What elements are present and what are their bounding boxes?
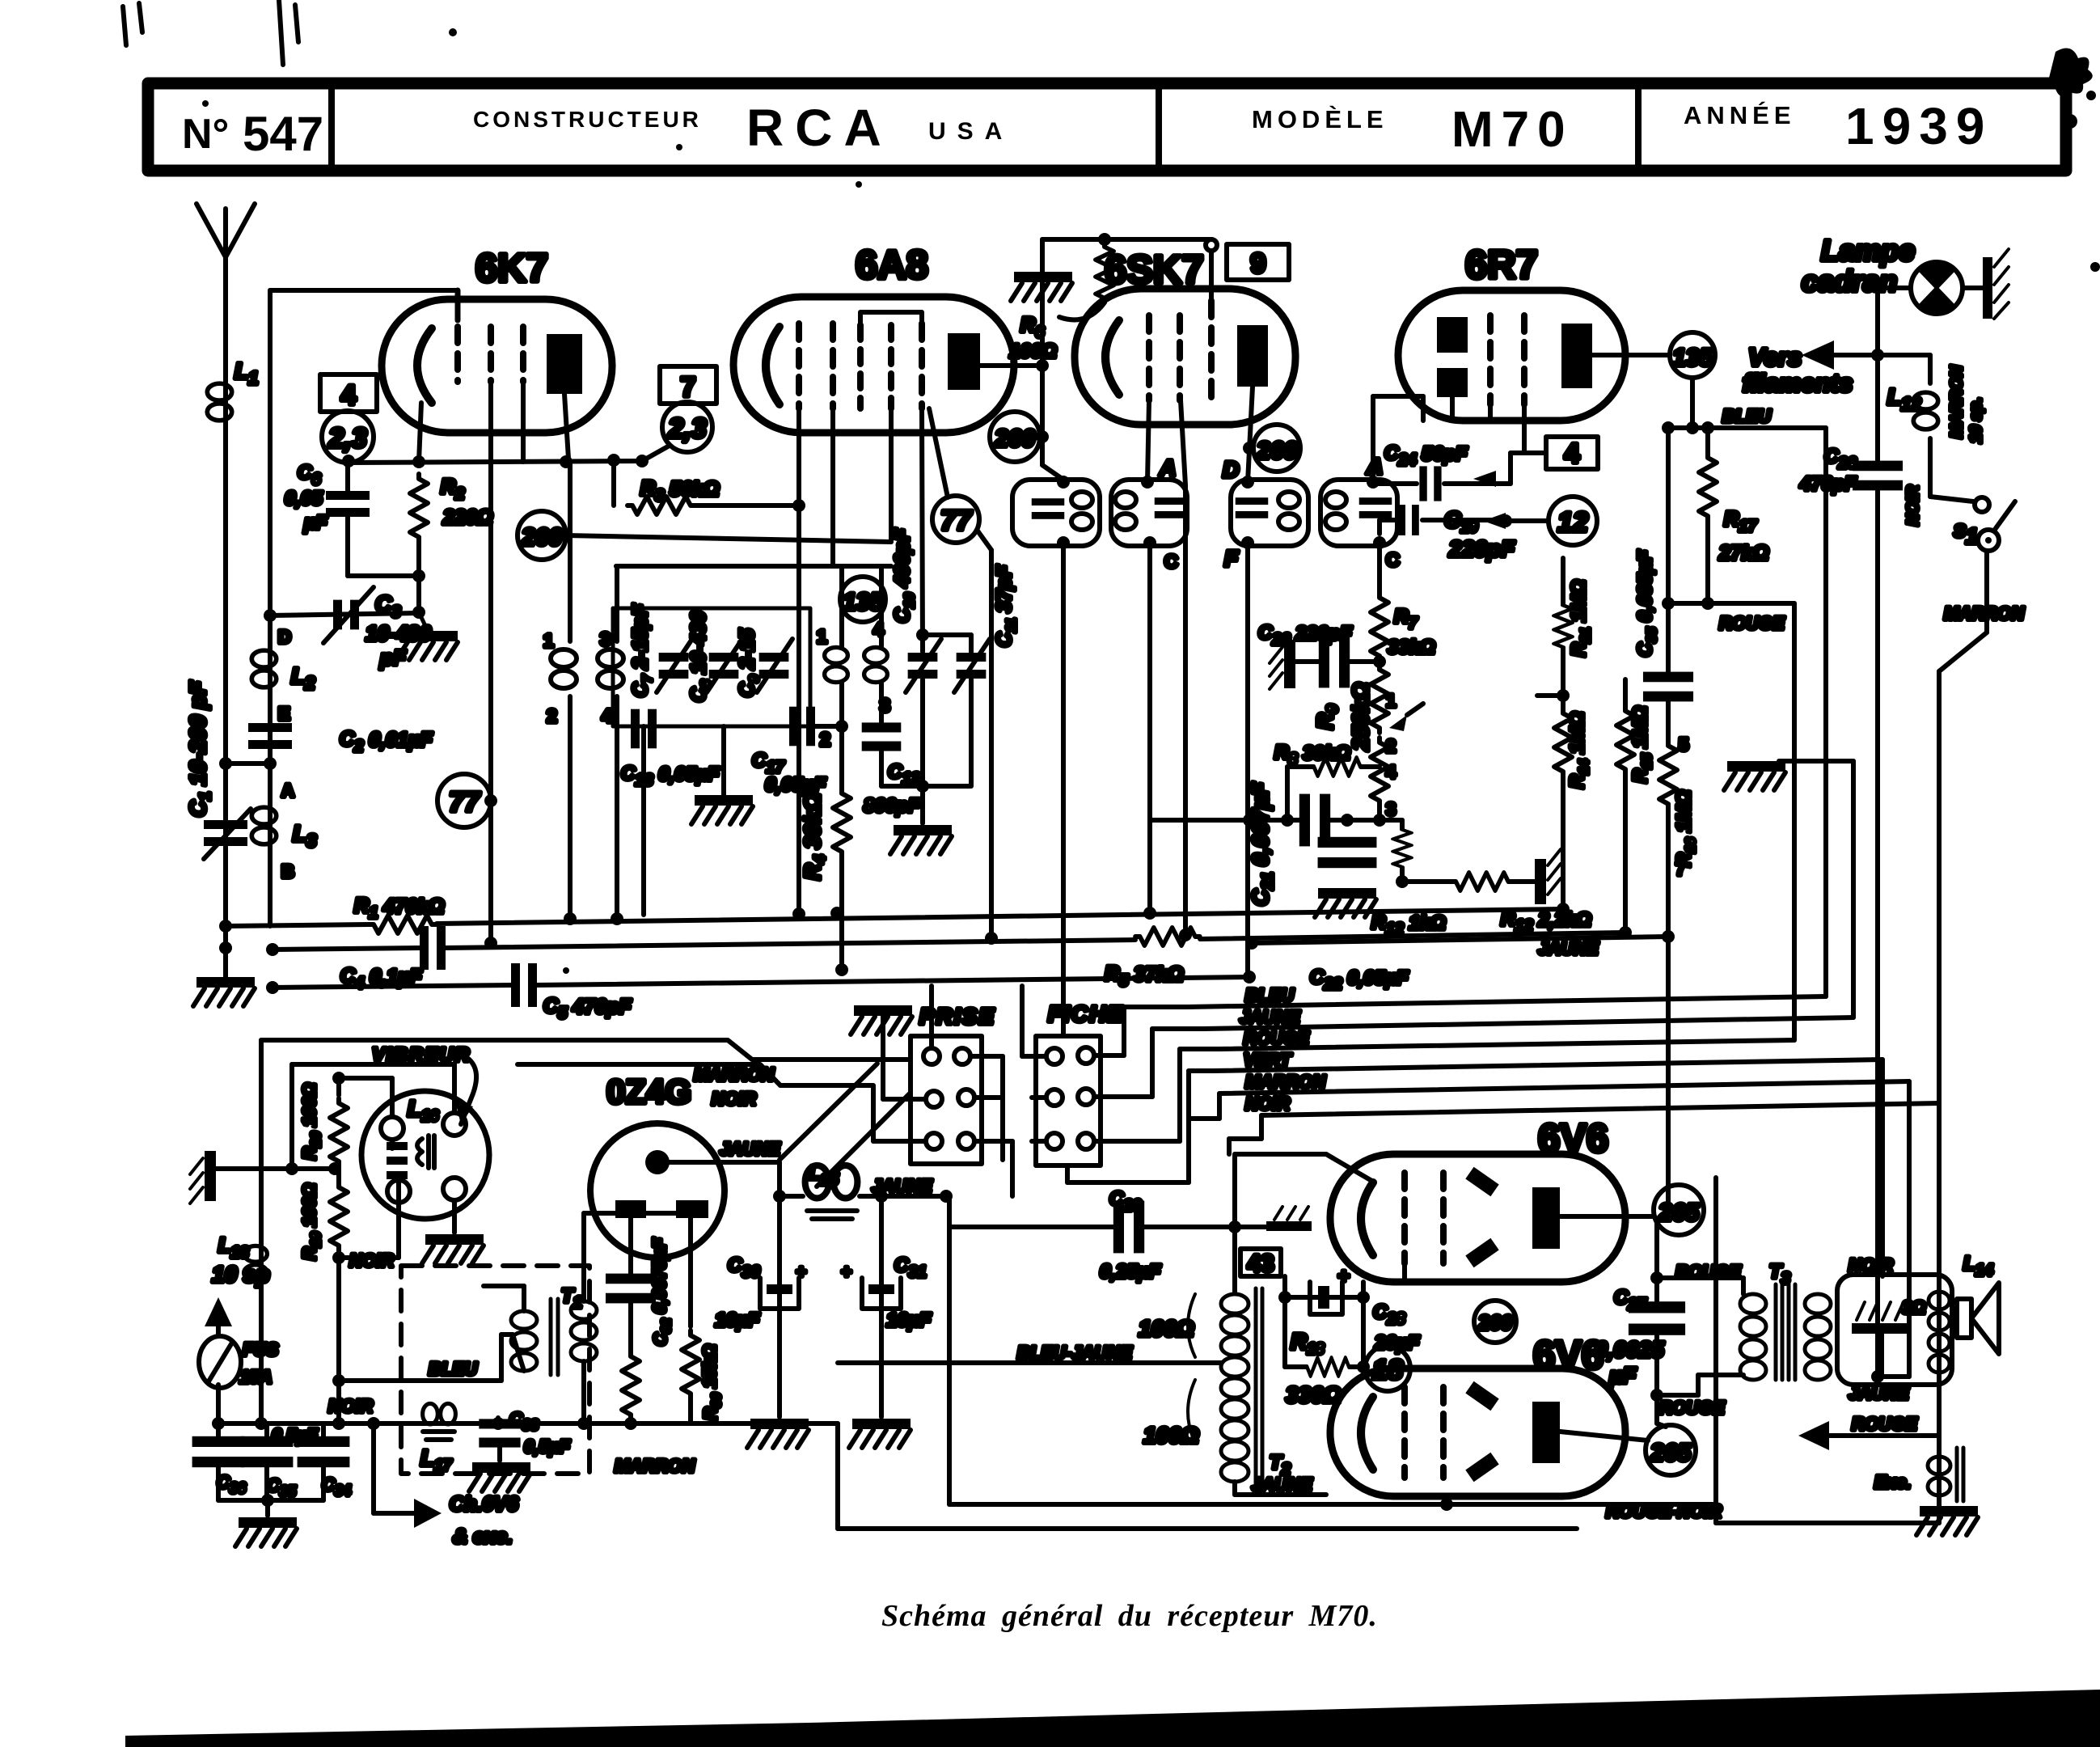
svg-text:A: A — [281, 780, 294, 801]
svg-text:3: 3 — [600, 628, 611, 649]
svg-text:220pF: 220pF — [1448, 536, 1515, 561]
svg-text:4: 4 — [602, 705, 612, 726]
svg-text:USA: USA — [928, 118, 1013, 145]
svg-text:C7 2-15pF: C7 2-15pF — [629, 603, 655, 697]
svg-text:27kΩ: 27kΩ — [1718, 542, 1768, 565]
svg-text:A: A — [1366, 454, 1383, 479]
svg-text:15A: 15A — [239, 1367, 272, 1387]
svg-text:4: 4 — [1565, 438, 1580, 469]
svg-text:NOIR: NOIR — [1245, 1093, 1290, 1114]
svg-text:265: 265 — [1650, 1440, 1692, 1466]
svg-text:7: 7 — [1675, 859, 1685, 879]
svg-text:4: 4 — [1386, 762, 1396, 782]
svg-text:FUS: FUS — [243, 1339, 278, 1360]
svg-text:JAUNE: JAUNE — [720, 1139, 781, 1159]
svg-text:3: 3 — [1386, 799, 1396, 819]
svg-text:Ch.6V6: Ch.6V6 — [450, 1493, 519, 1516]
svg-text:265: 265 — [1658, 1199, 1700, 1226]
svg-text:NOIR: NOIR — [328, 1396, 373, 1416]
svg-text:4: 4 — [341, 380, 357, 411]
svg-text:C: C — [1386, 549, 1400, 570]
svg-text:C8 10-430: C8 10-430 — [687, 611, 713, 702]
svg-text:7: 7 — [681, 372, 696, 403]
svg-text:2,3: 2,3 — [667, 413, 706, 444]
svg-text:100Ω: 100Ω — [1009, 341, 1057, 362]
svg-text:R4 39kΩ: R4 39kΩ — [800, 793, 829, 880]
svg-text:260: 260 — [521, 524, 562, 551]
svg-text:ROUGE: ROUGE — [1244, 1028, 1310, 1048]
svg-text:NOIR: NOIR — [1849, 1255, 1893, 1275]
svg-text:250kΩ: 250kΩ — [1348, 683, 1373, 751]
svg-text:B: B — [281, 861, 294, 882]
svg-text:260: 260 — [994, 425, 1035, 452]
svg-text:+: + — [841, 1262, 851, 1282]
svg-text:0,5µF: 0,5µF — [524, 1436, 570, 1457]
svg-text:A: A — [1159, 455, 1176, 480]
svg-text:77: 77 — [940, 505, 973, 536]
svg-text:+: + — [796, 1262, 806, 1282]
svg-text:0,05µF: 0,05µF — [765, 774, 827, 796]
svg-text:800pF: 800pF — [864, 795, 921, 817]
svg-text:1: 1 — [1386, 691, 1396, 711]
svg-text:BLEU: BLEU — [429, 1359, 478, 1379]
svg-text:ROUGE: ROUGE — [1659, 1398, 1726, 1418]
svg-text:2,3: 2,3 — [327, 423, 366, 454]
svg-text:0Z4G: 0Z4G — [606, 1072, 691, 1110]
svg-text:F: F — [1224, 546, 1239, 571]
svg-text:C: C — [1164, 551, 1178, 572]
svg-text:NOIR: NOIR — [349, 1250, 394, 1271]
svg-text:260: 260 — [1477, 1312, 1512, 1335]
svg-text:pF: pF — [379, 645, 407, 670]
svg-text:C9 2-15: C9 2-15 — [736, 628, 762, 697]
svg-text:R16 1MΩ: R16 1MΩ — [1673, 790, 1698, 867]
svg-text:ROUGE-NOIR: ROUGE-NOIR — [1606, 1501, 1722, 1521]
svg-text:BLEU-JAUNE: BLEU-JAUNE — [1017, 1343, 1133, 1363]
svg-text:R14 1MΩ: R14 1MΩ — [1566, 712, 1591, 789]
svg-text:33kΩ: 33kΩ — [1388, 637, 1435, 658]
svg-text:ROUGE: ROUGE — [1719, 613, 1785, 633]
svg-text:C11 37pF: C11 37pF — [993, 565, 1019, 647]
svg-text:R15 1MΩ: R15 1MΩ — [1629, 706, 1654, 783]
svg-text:100Ω: 100Ω — [1143, 1423, 1199, 1448]
svg-text:RCA: RCA — [746, 99, 893, 157]
svg-text:VERT: VERT — [1244, 1050, 1292, 1070]
svg-text:135: 135 — [1672, 345, 1713, 371]
svg-text:547: 547 — [243, 107, 323, 161]
svg-text:& exc.: & exc. — [453, 1525, 513, 1548]
svg-text:BLEU: BLEU — [1722, 406, 1772, 426]
svg-text:D: D — [278, 627, 291, 647]
svg-text:MARRON: MARRON — [1948, 365, 1966, 438]
svg-text:0,05: 0,05 — [285, 488, 323, 510]
svg-text:M70: M70 — [1451, 102, 1574, 158]
svg-text:20µF: 20µF — [1374, 1332, 1421, 1354]
svg-text:Schéma général du récepteur: Schéma général du récepteur M70. — [881, 1599, 1378, 1633]
svg-text:0,25µF: 0,25µF — [1100, 1261, 1162, 1283]
svg-text:6A8: 6A8 — [856, 243, 928, 287]
svg-text:FICHE: FICHE — [1048, 1001, 1124, 1026]
svg-text:JAUNE: JAUNE — [1849, 1383, 1910, 1403]
svg-text:5: 5 — [1679, 734, 1688, 755]
svg-text:2: 2 — [820, 729, 830, 750]
svg-text:MARRON: MARRON — [1245, 1072, 1326, 1092]
svg-text:N°: N° — [182, 111, 229, 158]
svg-text:BLEU: BLEU — [1245, 985, 1295, 1005]
svg-text:filaments: filaments — [1743, 369, 1853, 397]
svg-text:C2 0,01µF: C2 0,01µF — [340, 728, 433, 755]
svg-text:6V6: 6V6 — [1538, 1117, 1608, 1161]
svg-text:JAUNE: JAUNE — [1538, 938, 1599, 958]
svg-text:1939: 1939 — [1845, 97, 1992, 155]
svg-text:ANNÉE: ANNÉE — [1684, 101, 1796, 129]
svg-text:6SK7: 6SK7 — [1105, 248, 1204, 292]
svg-text:MARRON: MARRON — [1944, 603, 2025, 624]
svg-text:3Ω: 3Ω — [1902, 1297, 1925, 1318]
svg-text:E: E — [278, 704, 290, 724]
svg-text:220Ω: 220Ω — [442, 506, 492, 529]
svg-text:MODÈLE: MODÈLE — [1252, 105, 1388, 133]
svg-text:ROUGE: ROUGE — [1852, 1414, 1918, 1434]
svg-text:2: 2 — [547, 705, 557, 726]
svg-text:6V6: 6V6 — [1533, 1334, 1604, 1377]
svg-text:9: 9 — [1251, 248, 1266, 279]
svg-text:100Ω: 100Ω — [1139, 1316, 1194, 1341]
svg-text:0,0025: 0,0025 — [1595, 1337, 1664, 1362]
svg-text:Exc.: Exc. — [1874, 1472, 1911, 1492]
svg-text:D: D — [1223, 457, 1239, 482]
svg-text:2: 2 — [1386, 736, 1396, 756]
svg-text:1: 1 — [817, 626, 827, 647]
svg-text:260: 260 — [1256, 438, 1297, 464]
svg-text:1: 1 — [543, 630, 554, 651]
svg-text:Lampe: Lampe — [1821, 234, 1915, 267]
svg-text:10-430: 10-430 — [365, 621, 431, 645]
svg-text:43: 43 — [1247, 1250, 1274, 1277]
svg-text:C10 490pF: C10 490pF — [891, 528, 917, 623]
svg-text:cadran: cadran — [1802, 264, 1897, 298]
svg-text:470pF: 470pF — [1799, 473, 1857, 495]
svg-text:6K7: 6K7 — [475, 247, 548, 290]
svg-text:CONSTRUCTEUR: CONSTRUCTEUR — [473, 107, 702, 132]
svg-text:JAUNE: JAUNE — [1240, 1007, 1301, 1027]
svg-text:0,5µF: 0,5µF — [272, 1425, 318, 1445]
svg-text:µF: µF — [303, 512, 328, 534]
svg-text:10 sp.: 10 sp. — [1967, 397, 1985, 443]
svg-text:77: 77 — [449, 787, 481, 818]
svg-text:6R7: 6R7 — [1465, 243, 1538, 287]
svg-text:135: 135 — [843, 589, 884, 615]
svg-text:10µF: 10µF — [886, 1309, 932, 1331]
svg-text:µF: µF — [1608, 1363, 1637, 1388]
svg-text:NOIR: NOIR — [712, 1089, 756, 1109]
svg-text:10µF: 10µF — [715, 1309, 761, 1331]
svg-text:NOIR: NOIR — [1904, 484, 1922, 526]
svg-text:Vers: Vers — [1748, 343, 1802, 371]
svg-text:+: + — [1337, 1265, 1350, 1288]
svg-text:MARRON: MARRON — [694, 1064, 775, 1085]
svg-text:12: 12 — [1557, 507, 1588, 538]
svg-text:MARRON: MARRON — [615, 1456, 695, 1476]
svg-text:R21 1MΩ: R21 1MΩ — [1568, 580, 1593, 657]
